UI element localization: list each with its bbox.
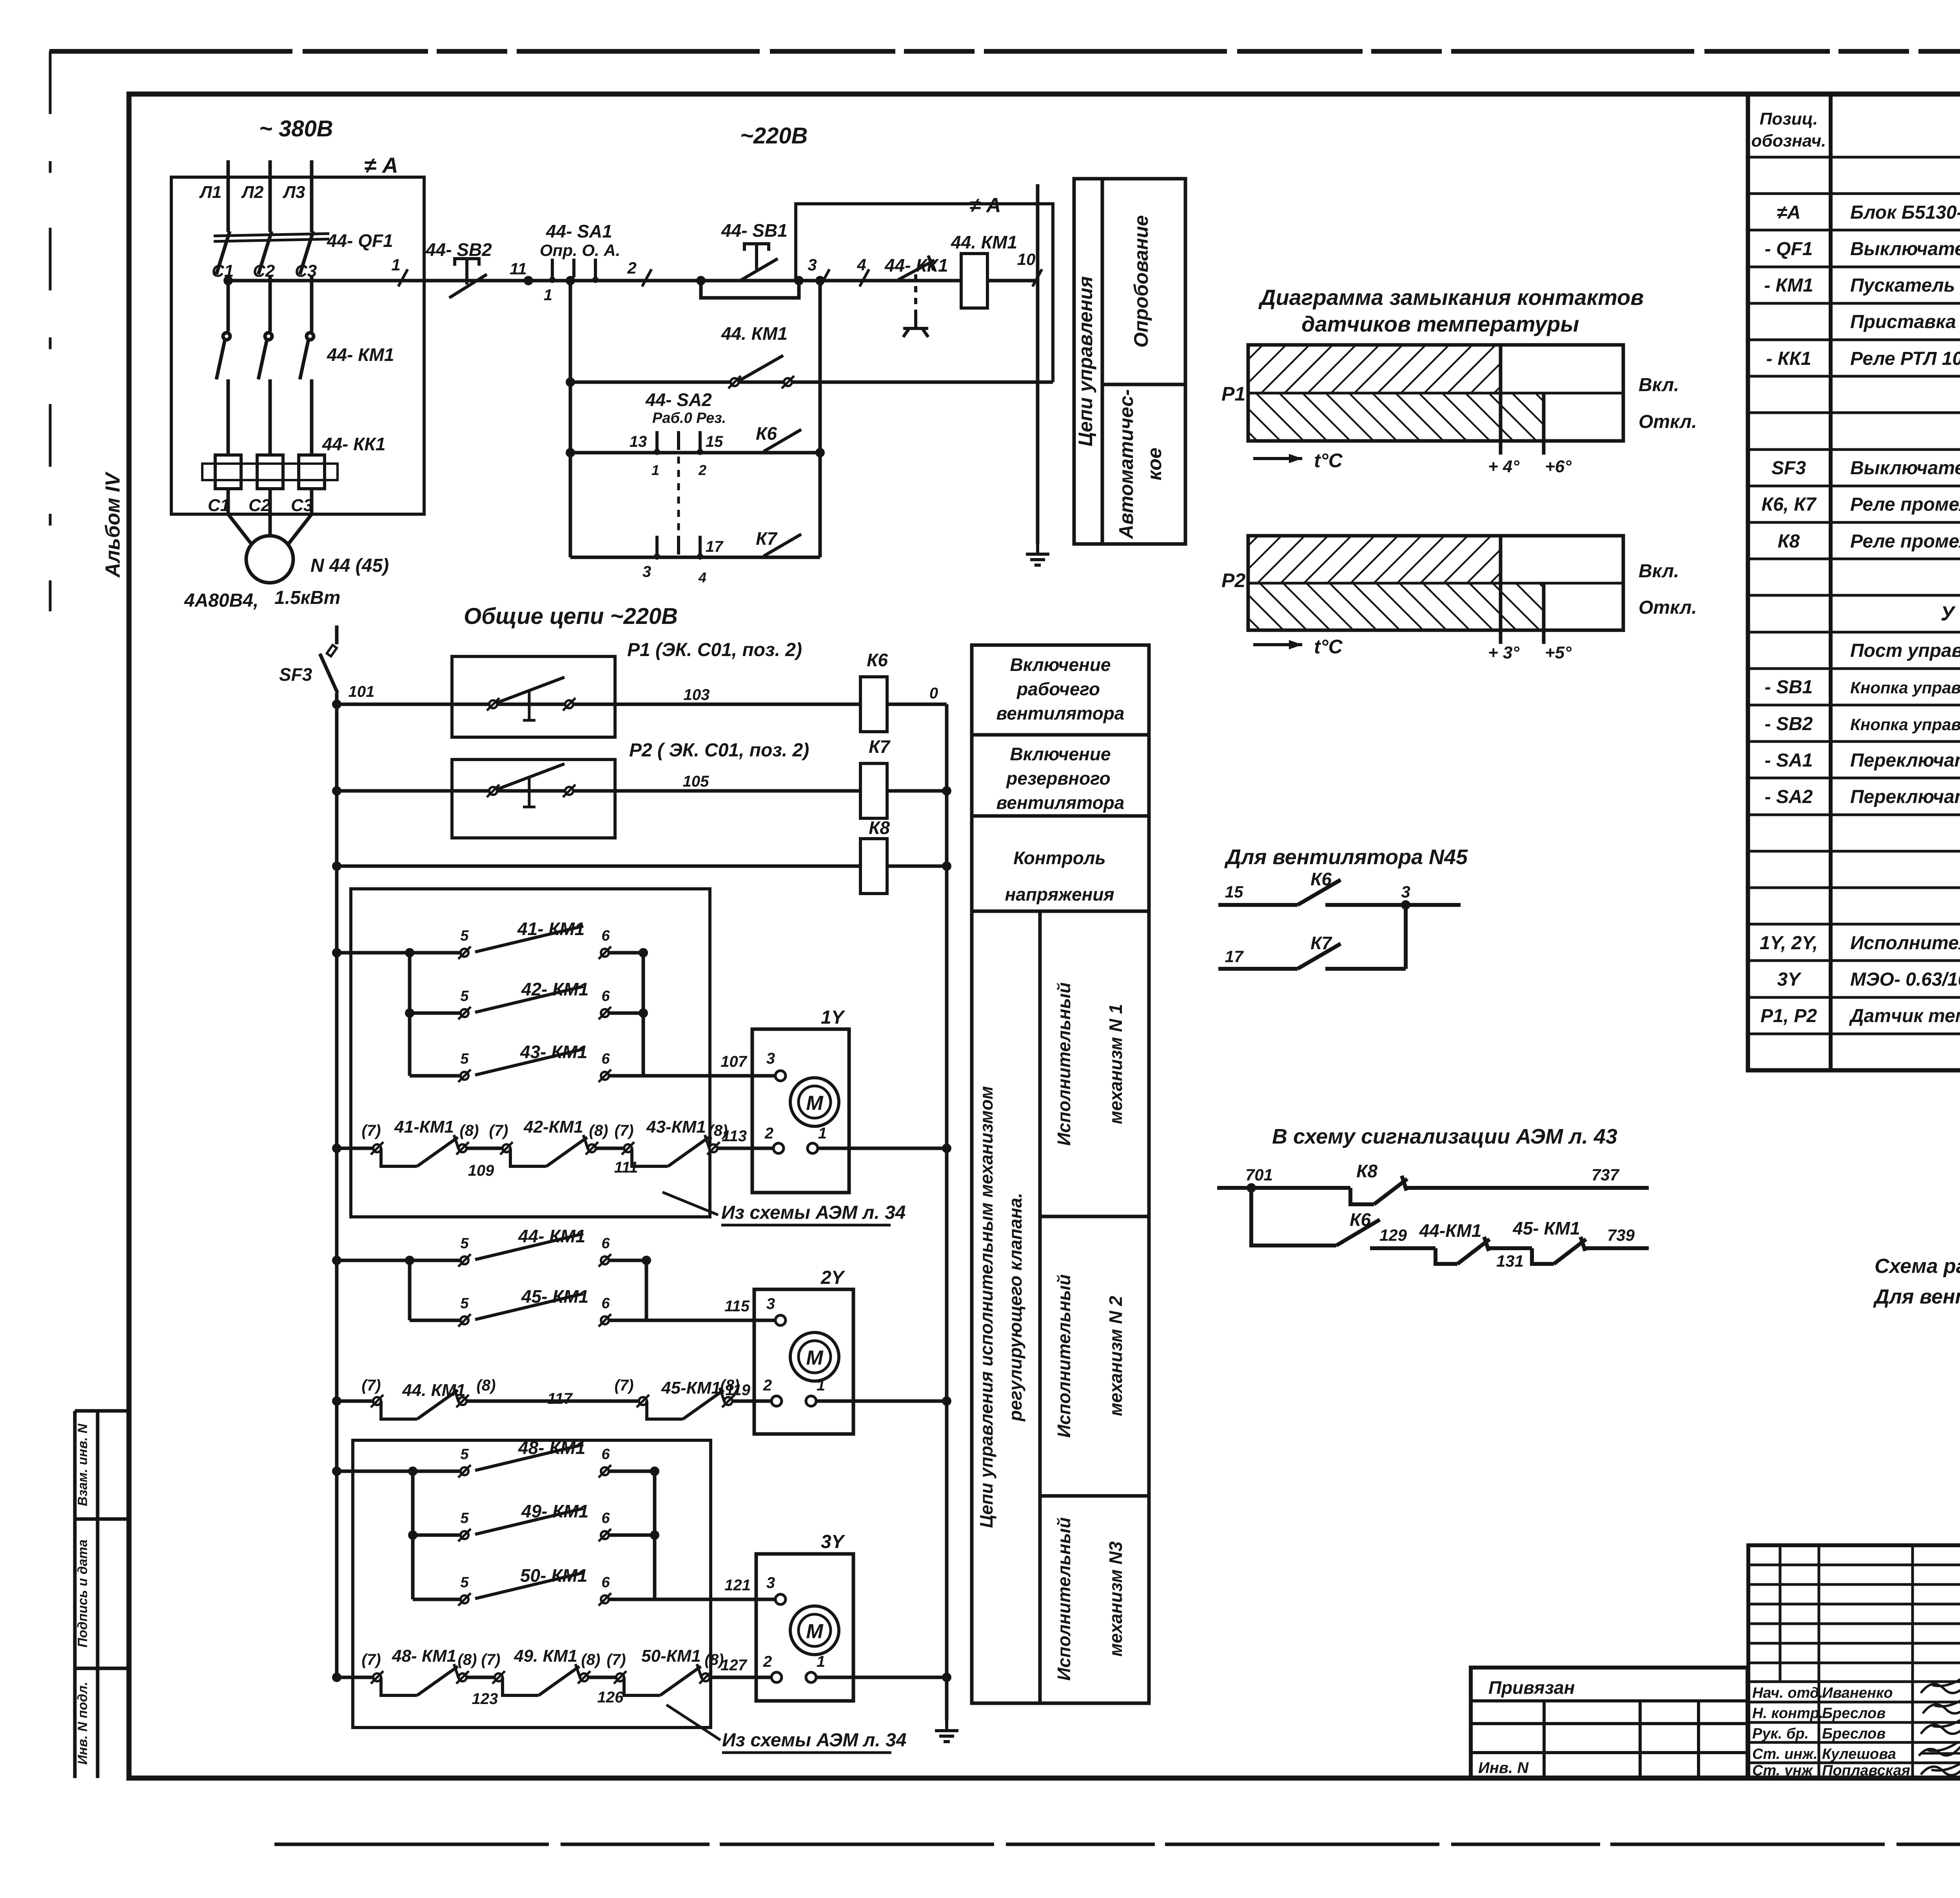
node group48 junctions — [408, 1467, 659, 1540]
svg-text:3Y: 3Y — [821, 1532, 846, 1552]
svg-text:Ст. инж.: Ст. инж. — [1752, 1746, 1818, 1762]
sensor P1 diagram bar — [1248, 345, 1623, 455]
wire frag K7 left — [1218, 967, 1298, 971]
svg-text:2: 2 — [627, 259, 636, 277]
svg-text:Из схемы АЭМ л. 34: Из схемы АЭМ л. 34 — [722, 1730, 906, 1751]
node rail rung1 junction — [332, 700, 341, 709]
wire signal lower 1 — [1370, 1246, 1436, 1250]
svg-text:105: 105 — [683, 773, 709, 790]
svg-text:К8: К8 — [1356, 1161, 1377, 1181]
svg-text:5: 5 — [460, 1510, 469, 1526]
svg-text:Исполнительный: Исполнительный — [1054, 983, 1074, 1146]
block A outline — [796, 204, 1053, 382]
svg-text:напряжения: напряжения — [1005, 884, 1114, 905]
svg-text:резервного: резервного — [1005, 768, 1110, 789]
svg-text:+ 4°: + 4° — [1488, 457, 1519, 476]
wire rung 41 — [337, 951, 460, 955]
function label column — [972, 645, 1149, 1703]
svg-text:механизм N 2: механизм N 2 — [1105, 1296, 1126, 1416]
svg-text:Опробование: Опробование — [1130, 215, 1152, 348]
wire 1Y to rail — [818, 1147, 947, 1150]
svg-text:(8): (8) — [581, 1651, 601, 1668]
svg-text:Раб.0 Рез.: Раб.0 Рез. — [652, 410, 726, 426]
svg-text:127: 127 — [720, 1657, 747, 1674]
svg-text:1: 1 — [817, 1377, 825, 1394]
svg-text:123: 123 — [472, 1690, 498, 1708]
svg-text:механизм N3: механизм N3 — [1105, 1541, 1126, 1657]
svg-text:Бреслов: Бреслов — [1822, 1705, 1886, 1722]
title block staff grid — [1748, 1545, 1960, 1778]
svg-text:2: 2 — [698, 462, 706, 478]
svg-text:3: 3 — [642, 563, 651, 580]
selector SA2 upper pole dots — [654, 449, 703, 455]
svg-text:126: 126 — [597, 1689, 624, 1706]
wire series rung 113 — [337, 1147, 377, 1150]
svg-text:115: 115 — [724, 1298, 750, 1315]
svg-text:(7): (7) — [615, 1377, 634, 1394]
wire signal lower 3 — [1585, 1246, 1649, 1250]
thermal relay KK1 heater frame — [202, 464, 338, 480]
actuator 2Y terminal 2 — [763, 1377, 782, 1406]
node drop K6row junction — [566, 448, 575, 457]
break contact 42-KM1(8) — [500, 1135, 598, 1166]
actuator 1Y terminal 2 — [764, 1125, 784, 1153]
svg-text:Инв. N подл.: Инв. N подл. — [75, 1682, 90, 1765]
sensor P2 diagram bar — [1248, 536, 1623, 644]
svg-text:- КМ1: - КМ1 — [1764, 275, 1813, 296]
svg-text:Исполнительный механизм: Исполнительный механизм — [1850, 933, 1960, 954]
svg-text:6: 6 — [601, 1295, 610, 1312]
svg-text:6: 6 — [601, 928, 610, 944]
svg-text:Цепи управления исполнительн: Цепи управления исполнительным механизмо… — [976, 1086, 996, 1528]
svg-text:(8): (8) — [458, 1651, 477, 1668]
wire signal lower 2 — [1489, 1246, 1532, 1250]
svg-text:Реле промежуточное РПУ2-М362: Реле промежуточное РПУ2-М36220У3Б — [1850, 531, 1960, 552]
svg-text:101: 101 — [348, 683, 375, 700]
svg-text:5: 5 — [460, 928, 469, 944]
phase L1 wire — [227, 160, 230, 232]
actuator 3Y terminal 3 — [766, 1574, 786, 1604]
thermal relay KK1 heater 1 — [215, 455, 241, 489]
control bus wire — [228, 279, 1038, 283]
svg-text:К8: К8 — [869, 818, 890, 838]
group box AEM34 upper — [351, 889, 710, 1217]
svg-text:(8): (8) — [589, 1122, 608, 1139]
selector SA2 linkage — [677, 457, 680, 533]
svg-text:15: 15 — [706, 433, 723, 450]
svg-text:117: 117 — [547, 1390, 573, 1407]
wire frag K6 right — [1325, 903, 1461, 907]
node 3 junction — [815, 276, 825, 285]
svg-text:Включение: Включение — [1010, 744, 1111, 764]
svg-text:17: 17 — [1225, 947, 1244, 966]
node right rail junctions — [942, 786, 951, 1682]
actuator 3Y terminal 2 — [763, 1653, 782, 1682]
svg-text:6: 6 — [601, 1510, 610, 1526]
svg-text:44-КМ1: 44-КМ1 — [1419, 1220, 1482, 1241]
actuator 2Y box — [754, 1289, 853, 1434]
node frag junction — [1401, 900, 1410, 910]
svg-text:механизм N 1: механизм N 1 — [1105, 1004, 1126, 1124]
wire K7 row — [570, 556, 820, 559]
svg-text:3: 3 — [766, 1295, 775, 1312]
break contact 50-KM1(8) — [614, 1664, 712, 1695]
svg-text:44- SA2: 44- SA2 — [645, 390, 712, 410]
svg-text:Н. контр.: Н. контр. — [1752, 1705, 1824, 1722]
svg-text:К6, К7: К6, К7 — [1761, 494, 1817, 515]
thermal contact KK1 — [898, 256, 935, 337]
svg-text:М: М — [806, 1620, 824, 1643]
staff signatures — [1919, 1674, 1960, 1775]
svg-text:6: 6 — [601, 1446, 610, 1463]
wire rung K8 — [337, 865, 860, 868]
svg-text:С3: С3 — [291, 496, 313, 515]
svg-text:Альбом IV: Альбом IV — [102, 471, 124, 578]
wire feeder drop — [569, 281, 572, 557]
svg-text:- SB2: - SB2 — [1765, 714, 1813, 734]
svg-text:45-КМ1: 45-КМ1 — [661, 1378, 721, 1398]
break contact 48-KM1(8) — [371, 1664, 469, 1695]
node 3 slash — [820, 269, 829, 286]
thermal relay KK1 heater 3 — [299, 455, 325, 489]
svg-text:t°С: t°С — [1314, 636, 1343, 658]
wire box1 left bus — [408, 953, 412, 1076]
contact 42-KM1 — [458, 986, 611, 1019]
series labels row1 — [362, 1117, 728, 1139]
svg-text:44- QF1: 44- QF1 — [327, 230, 393, 251]
svg-text:Переключатель ПФ3: Переключатель ПФ3 — [1850, 750, 1960, 771]
svg-text:(7): (7) — [362, 1651, 381, 1668]
wire series rung 127 — [337, 1676, 377, 1679]
svg-text:Общие цепи ~220В: Общие цепи ~220В — [464, 604, 678, 629]
svg-text:(7): (7) — [489, 1122, 508, 1139]
wire rung K7 — [337, 789, 860, 793]
svg-text:Исполнительный: Исполнительный — [1054, 1274, 1074, 1438]
svg-text:121: 121 — [724, 1577, 751, 1594]
wire frag K6 left — [1218, 903, 1298, 907]
svg-text:N 44 (45): N 44 (45) — [310, 555, 389, 576]
node group44 junctions — [405, 1256, 651, 1265]
breaker SF3 — [320, 625, 338, 693]
svg-text:В схему сигнализации АЭМ: В схему сигнализации АЭМ л. 43 — [1272, 1125, 1617, 1148]
sheet outer border top — [49, 49, 1960, 54]
node 4 slash — [860, 269, 869, 286]
series labels row2 — [362, 1377, 751, 1407]
phase L2 wire — [269, 160, 272, 232]
svg-text:Выключатель АЕ2026-10МУЗ: Выключатель АЕ2026-10МУЗ — [1850, 239, 1960, 259]
svg-text:обознач.: обознач. — [1751, 131, 1826, 150]
svg-text:6: 6 — [601, 988, 610, 1004]
svg-text:5: 5 — [460, 1295, 469, 1312]
svg-text:Для вентилятора N45: Для вентилятора N45 — [1224, 845, 1468, 869]
node drop selfhold junction — [566, 377, 575, 387]
svg-text:рабочего: рабочего — [1016, 679, 1100, 699]
svg-text:737: 737 — [1592, 1166, 1620, 1184]
svg-text:2Y: 2Y — [820, 1267, 846, 1288]
svg-text:3Y: 3Y — [1777, 969, 1802, 990]
svg-text:129: 129 — [1379, 1226, 1407, 1244]
svg-text:вентилятора: вентилятора — [996, 703, 1125, 723]
selector SA2 lower pole dots — [654, 553, 703, 560]
node drop top junction — [566, 276, 575, 285]
contactor coil KM1 — [961, 254, 987, 308]
svg-text:10: 10 — [1017, 250, 1036, 268]
motor lead 3 — [287, 514, 312, 546]
group box AEM34 lower — [353, 1440, 711, 1728]
selector SA2 upper prongs — [657, 431, 700, 450]
ground control rail — [1026, 544, 1049, 565]
svg-text:5: 5 — [460, 1446, 469, 1463]
svg-text:6: 6 — [601, 1235, 610, 1252]
svg-text:42-КМ1: 42-КМ1 — [523, 1117, 583, 1137]
svg-text:Кнопка управления КУ; 1з, 1р;: Кнопка управления КУ; 1з, 1р; черный тол… — [1850, 678, 1960, 697]
svg-text:41-КМ1: 41-КМ1 — [394, 1117, 454, 1137]
break contact 44-KM1(8) — [371, 1388, 469, 1419]
actuator 1Y terminal 1 — [808, 1125, 827, 1153]
contactor KM1 pole 3 — [300, 333, 314, 455]
wire left rail — [335, 693, 339, 1677]
svg-text:Переключатель ПФ3: Переключатель ПФ3 — [1850, 787, 1960, 807]
svg-text:вентилятора: вентилятора — [996, 792, 1125, 813]
wire rows to bus riser — [818, 281, 822, 557]
svg-text:Автоматичес-: Автоматичес- — [1115, 389, 1137, 540]
leader AEM34 upper — [662, 1192, 906, 1225]
svg-text:Включение: Включение — [1010, 654, 1111, 675]
svg-text:Опр. О. А.: Опр. О. А. — [540, 241, 620, 259]
contactor KM1 pole 1 — [216, 333, 230, 455]
svg-text:К7: К7 — [869, 736, 891, 757]
node rail rung48 junction — [332, 1467, 341, 1476]
wire group48 left bus — [411, 1471, 415, 1599]
svg-text:Л1: Л1 — [199, 183, 222, 202]
node bypass left junction — [696, 276, 706, 285]
svg-text:М: М — [806, 1092, 824, 1115]
svg-text:5: 5 — [460, 1574, 469, 1591]
phase L3 wire — [310, 160, 314, 232]
svg-text:МЭО- 0.63/10- 0.25П: МЭО- 0.63/10- 0.25П — [1850, 969, 1960, 990]
contact 49-KM1 — [458, 1508, 611, 1541]
svg-text:3: 3 — [808, 256, 817, 274]
label vkl rezervnogo — [996, 744, 1125, 813]
svg-text:1Y, 2Y,: 1Y, 2Y, — [1760, 933, 1818, 954]
svg-text:Вкл.: Вкл. — [1639, 375, 1679, 395]
selector SA1 pole dots — [549, 277, 599, 283]
svg-text:Контроль: Контроль — [1013, 848, 1105, 868]
svg-text:3: 3 — [766, 1050, 775, 1067]
svg-text:(7): (7) — [615, 1122, 634, 1139]
actuator 1Y box — [752, 1029, 849, 1193]
svg-text:103: 103 — [684, 686, 710, 703]
node riser bus junction — [815, 276, 825, 285]
motor feeder wire 3 — [310, 489, 314, 514]
pushbutton SB2 — [449, 259, 487, 298]
break contact K8 — [1350, 1176, 1407, 1204]
svg-text:49. КМ1: 49. КМ1 — [514, 1646, 577, 1666]
wire signal top left — [1217, 1186, 1350, 1190]
selector SA1 contact prongs — [552, 259, 595, 277]
svg-text:4А80В4,: 4А80В4, — [184, 590, 258, 611]
svg-text:Для вентилятора N45 схема: Для вентилятора N45 схема аналогична. — [1873, 1285, 1960, 1308]
wire group48 right bus — [653, 1471, 657, 1599]
wire control neutral rail — [1036, 184, 1040, 544]
wire rung 43 — [410, 1074, 460, 1078]
pushbutton SB1 — [740, 244, 778, 281]
svg-text:3: 3 — [1401, 883, 1410, 901]
axis P2 — [1253, 636, 1343, 658]
wire rung 49 — [413, 1534, 460, 1537]
svg-text:Р1, Р2: Р1, Р2 — [1760, 1006, 1817, 1026]
wire rung K6 — [337, 703, 860, 706]
label vkl rabochego — [996, 654, 1125, 723]
svg-text:44- КМ1: 44- КМ1 — [327, 344, 394, 365]
wire rung 42 — [410, 1012, 460, 1015]
motor feeder wire 1 — [227, 489, 230, 514]
svg-text:119: 119 — [725, 1381, 751, 1399]
svg-text:1: 1 — [818, 1125, 827, 1142]
svg-text:739: 739 — [1607, 1226, 1635, 1244]
svg-text:(7): (7) — [607, 1651, 626, 1668]
svg-text:1: 1 — [544, 286, 552, 304]
motor lead 1 — [228, 514, 253, 546]
svg-text:Реле РТЛ 100704: Реле РТЛ 100704 — [1850, 348, 1960, 369]
svg-text:701: 701 — [1245, 1166, 1273, 1184]
node 1 slash — [391, 256, 408, 286]
sheet outer border left — [49, 51, 52, 611]
svg-text:Р2: Р2 — [1221, 569, 1245, 591]
wire series rung 117 — [337, 1399, 377, 1403]
auxiliary contact KM1 — [739, 355, 783, 381]
motor feeder wire 2 — [269, 489, 272, 514]
svg-text:13: 13 — [630, 433, 647, 450]
svg-text:113: 113 — [722, 1128, 747, 1145]
svg-text:Откл.: Откл. — [1639, 412, 1697, 432]
svg-text:2: 2 — [763, 1377, 772, 1394]
staff names — [1752, 1685, 1910, 1779]
node 701 junction — [1247, 1183, 1256, 1193]
svg-text:44- КК1: 44- КК1 — [322, 434, 385, 454]
node 2 slash — [642, 269, 652, 286]
wire SB1 bypass — [701, 281, 799, 298]
svg-text:+ 3°: + 3° — [1488, 643, 1519, 662]
node rail rung44 junction — [332, 1256, 341, 1265]
power circuit enclosure — [171, 177, 424, 514]
svg-text:Блок Б5130-2674 УХЛ4: Блок Б5130-2674 УХЛ4 — [1850, 202, 1960, 223]
svg-text:1: 1 — [817, 1653, 825, 1670]
svg-text:Кнопка управления КУ; 2р; кра: Кнопка управления КУ; 2р; красный толкат… — [1850, 715, 1960, 734]
relay contact K6 frag — [1298, 880, 1341, 905]
motor lead 2 — [269, 514, 272, 536]
node bypass right junction — [794, 276, 804, 285]
breaker QF1 pole 2 — [258, 231, 272, 332]
svg-text:3: 3 — [766, 1574, 775, 1592]
selector SA2 lower prongs — [657, 536, 700, 555]
svg-text:1Y: 1Y — [821, 1007, 846, 1028]
svg-text:Ст. унж: Ст. унж — [1752, 1762, 1813, 1779]
actuator 3Y motor — [790, 1606, 839, 1655]
svg-text:~220В: ~220В — [740, 123, 808, 149]
title block privyazan table — [1471, 1668, 1748, 1778]
contact 45-KM1 — [458, 1294, 611, 1327]
svg-text:Взам. инв. N: Взам. инв. N — [75, 1423, 90, 1506]
svg-text:У вентилятора: У вентилятора — [1940, 602, 1960, 625]
node rail rung2 junction — [332, 786, 341, 796]
svg-text:Бреслов: Бреслов — [1822, 1726, 1886, 1742]
node riser K6 junction — [815, 448, 825, 457]
svg-text:Пускатель ПМЛ Н004: Пускатель ПМЛ Н004 — [1850, 275, 1960, 296]
svg-text:111: 111 — [614, 1159, 638, 1176]
svg-text:≠ А: ≠ А — [364, 153, 398, 178]
svg-text:Привязан: Привязан — [1488, 1677, 1575, 1698]
breaker QF1 pole 3 — [300, 231, 313, 332]
svg-text:(8): (8) — [460, 1122, 479, 1139]
svg-text:Выключатель АКБЗ-2МГ: Выключатель АКБЗ-2МГ — [1850, 458, 1960, 479]
svg-text:2: 2 — [764, 1125, 773, 1142]
ground right rail — [935, 1720, 958, 1742]
contact 43-KM1 — [458, 1049, 611, 1082]
svg-text:кое: кое — [1143, 448, 1165, 480]
break contact 45-KM1 signal — [1532, 1237, 1586, 1264]
contactor KM1 pole 2 — [258, 333, 272, 455]
svg-text:- SA2: - SA2 — [1765, 787, 1813, 807]
wire selfhold row — [570, 381, 1053, 384]
sheet outer border bottom — [274, 1843, 1960, 1846]
svg-text:М: М — [806, 1347, 824, 1369]
svg-text:109: 109 — [468, 1162, 494, 1179]
svg-text:- SA1: - SA1 — [1765, 750, 1813, 771]
svg-text:≠А: ≠А — [1777, 202, 1800, 223]
svg-text:(8): (8) — [477, 1377, 496, 1394]
svg-text:Исполнительный: Исполнительный — [1054, 1517, 1074, 1681]
svg-text:- QF1: - QF1 — [1765, 239, 1813, 259]
svg-text:К6: К6 — [756, 423, 777, 444]
svg-text:Л3: Л3 — [283, 183, 305, 202]
wire signal drop — [1251, 1188, 1336, 1245]
svg-text:15: 15 — [1225, 883, 1243, 901]
relay contact K6 signal — [1336, 1220, 1380, 1245]
node rail rung117 junction — [332, 1396, 341, 1406]
node rail rung3 junction — [332, 861, 341, 871]
label box circuits — [1074, 179, 1185, 544]
svg-text:К7: К7 — [756, 528, 778, 549]
wire signal top right — [1406, 1186, 1649, 1190]
svg-text:48- КМ1: 48- КМ1 — [392, 1646, 456, 1666]
svg-text:- КК1: - КК1 — [1766, 348, 1811, 369]
wire 2Y to rail — [816, 1399, 947, 1403]
contact 48-KM1 — [458, 1445, 611, 1477]
actuator 3Y box — [756, 1554, 853, 1701]
svg-text:50-КМ1: 50-КМ1 — [641, 1646, 701, 1666]
node box1 junctions — [405, 948, 648, 1018]
parts table rows text — [1760, 164, 1960, 1026]
svg-text:1: 1 — [391, 256, 400, 274]
actuator 2Y terminal 1 — [806, 1377, 825, 1406]
series labels row3 — [362, 1646, 724, 1668]
left margin strip — [75, 1411, 129, 1778]
break contact 44-KM1 signal — [1436, 1237, 1490, 1264]
svg-text:Р1: Р1 — [1221, 383, 1245, 405]
break contact 45-KM1(8) — [637, 1388, 735, 1419]
sensor P1 contact — [487, 677, 575, 720]
svg-text:Пост управления ПКУ 15-21. 14: Пост управления ПКУ 15-21. 141-54У2 — [1850, 640, 1960, 661]
svg-text:1.5кВт: 1.5кВт — [274, 587, 340, 608]
relay coil K6 — [860, 677, 887, 732]
svg-text:(7): (7) — [362, 1377, 381, 1394]
svg-text:131: 131 — [1496, 1252, 1524, 1270]
svg-text:45- КМ1: 45- КМ1 — [1512, 1218, 1580, 1238]
svg-text:Диаграмма замыкания контакто: Диаграмма замыкания контактов — [1258, 285, 1644, 310]
svg-text:Л2: Л2 — [241, 183, 264, 202]
svg-text:С2: С2 — [249, 496, 271, 515]
